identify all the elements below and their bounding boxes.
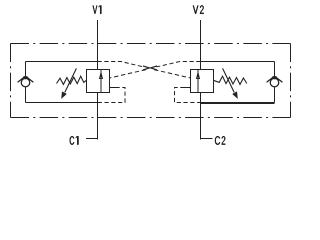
- wire: left loop top (node V1 to check valve branch): [26, 61, 98, 63]
- CB2 internal flow arrow: [197, 70, 200, 93]
- counterbalance valve CB2 box: [191, 70, 214, 93]
- port C1 line: [97, 93, 99, 140]
- valve assembly boundary (dash-dot border): [11, 44, 291, 118]
- port C2 label: [215, 136, 225, 145]
- CB1 pilot loop: [98, 88, 126, 103]
- port V2 label: [193, 5, 204, 13]
- pilot line V1 to CB2 (dashed, crossing): [98, 62, 191, 79]
- wire: right loop top (node V2 to check valve branch): [201, 61, 275, 63]
- port V1 label: [93, 6, 102, 14]
- port V2 line: [200, 20, 202, 70]
- port C2 line: [200, 93, 202, 140]
- check valve CV2: [267, 76, 283, 87]
- wire: left loop left upper: [25, 62, 27, 77]
- CB2 spring: [214, 76, 247, 84]
- CB2 pilot loop: [175, 88, 201, 103]
- port C1 tick: [86, 138, 98, 140]
- wire: right loop bottom (node C2): [201, 102, 275, 104]
- port C1 label: [70, 136, 79, 145]
- wire: right loop right upper: [274, 62, 276, 77]
- port C2 tick: [201, 138, 213, 140]
- wire: left loop left lower: [25, 87, 27, 103]
- CB1 adjustment arrow: [61, 68, 76, 99]
- port V1 line: [97, 20, 99, 70]
- CB2 adjustment arrow: [223, 68, 238, 99]
- CB1 spring: [57, 76, 87, 84]
- counterbalance valve CB1 box: [87, 70, 110, 93]
- wire: left loop bottom (node C1): [26, 102, 98, 104]
- check valve CV1: [18, 76, 34, 87]
- wire: right loop right lower: [274, 87, 276, 103]
- CB1 internal flow arrow: [100, 70, 103, 93]
- pilot line V2 to CB1 (dashed, crossing): [110, 62, 201, 79]
